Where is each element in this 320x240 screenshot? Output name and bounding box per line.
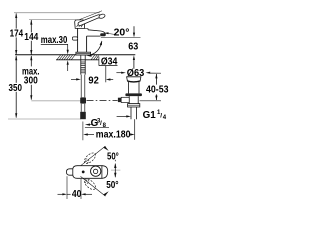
svg-text:63: 63 xyxy=(128,41,138,52)
svg-text:max.180: max.180 xyxy=(96,130,131,141)
svg-text:Ø34: Ø34 xyxy=(101,57,118,68)
svg-text:40-53: 40-53 xyxy=(146,85,169,96)
svg-text:300: 300 xyxy=(24,76,38,87)
svg-text:92: 92 xyxy=(88,75,99,86)
svg-text:144: 144 xyxy=(24,32,38,43)
svg-text:50°: 50° xyxy=(107,152,119,163)
svg-text:20°: 20° xyxy=(114,27,130,38)
svg-text:50°: 50° xyxy=(106,180,118,191)
svg-text:350: 350 xyxy=(9,83,23,94)
svg-text:G1: G1 xyxy=(143,110,157,121)
svg-text:40: 40 xyxy=(72,189,82,200)
svg-text:174: 174 xyxy=(10,28,24,39)
